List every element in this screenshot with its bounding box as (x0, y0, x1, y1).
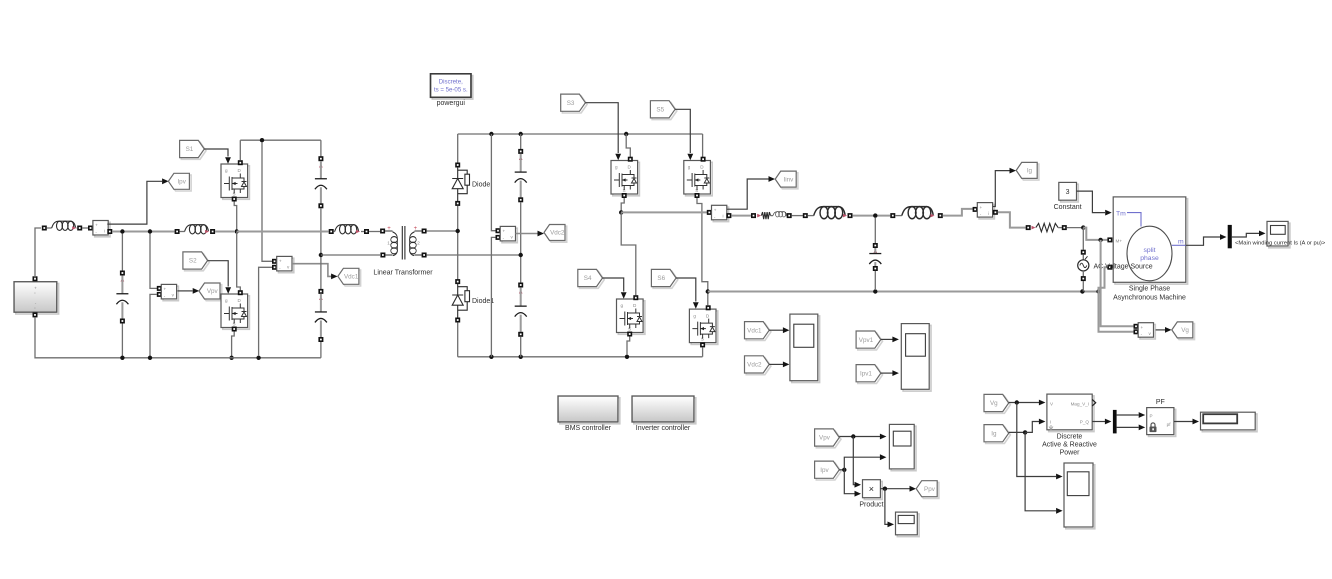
svg-text:Ig: Ig (991, 430, 997, 437)
wire Vpv1 to scope2 (881, 338, 893, 340)
svg-text:+: + (502, 229, 505, 234)
node topbus-Vdc1 (260, 138, 264, 142)
wire S5 to gate Q5 (675, 109, 690, 153)
diode D2 (455, 279, 460, 284)
svg-text:Vdc1: Vdc1 (747, 327, 762, 334)
from tag S6 (653, 271, 678, 288)
MOSFET Q4 (618, 301, 645, 335)
inductor L1 (42, 226, 47, 231)
node machine phase (1098, 238, 1102, 242)
svg-text:Power: Power (1060, 450, 1081, 457)
capacitor C3 leg bottom (320, 208, 322, 289)
wire Ipv to scope5 and product (839, 469, 844, 471)
wire product to display2 (885, 489, 888, 525)
MOSFET Q3 (613, 162, 640, 196)
display PF (1202, 414, 1257, 432)
capacitor C4 rect top (520, 134, 522, 149)
wire Q2 source to bottom bus (232, 332, 235, 357)
node rail-C1 (120, 229, 124, 233)
from tag Vg power (986, 396, 1011, 413)
from tag S5 (652, 102, 677, 119)
voltage measurement Vdc2 (491, 134, 495, 231)
node capmid to transformer (319, 253, 323, 257)
wire S4 to gate Q4 (603, 278, 624, 292)
node botbus Vdc2 (489, 355, 493, 359)
svg-text:S1: S1 (186, 146, 194, 153)
node phase A (619, 210, 623, 214)
svg-text:g: g (225, 168, 228, 173)
wire Q1 source to rail and Q2 drain (234, 202, 237, 232)
node phase B (706, 289, 710, 293)
MOSFET Q1 (223, 166, 250, 200)
svg-text:g: g (615, 165, 618, 170)
svg-text:1: 1 (387, 241, 390, 246)
resistor R1 (1026, 225, 1031, 230)
wire mid rail (107, 229, 112, 234)
node filter cap (873, 213, 877, 217)
from tag Ipv product (816, 463, 841, 480)
wire Vdc2 to scope1 (769, 363, 783, 365)
wire Vdc2 to goto tag (516, 233, 538, 235)
svg-text:Asynchronous Machine: Asynchronous Machine (1113, 295, 1186, 302)
node bottombus-C1 (120, 356, 124, 360)
wire L4 to node (852, 215, 890, 217)
wire Ipv1 to scope2 (881, 372, 893, 374)
svg-text:g: g (621, 303, 624, 308)
svg-text:+: + (95, 223, 98, 228)
svg-text:Ipv: Ipv (820, 467, 829, 474)
inductor L2 mid (175, 229, 180, 234)
svg-text:split: split (1143, 247, 1155, 254)
inductor L5 (890, 213, 895, 218)
from tag S1 (181, 142, 206, 159)
top bus converter1 (240, 139, 321, 141)
goto tag Iinv (777, 173, 798, 189)
wire to goto tag Ipv (107, 181, 162, 224)
MOSFET Q2 (223, 296, 250, 330)
svg-text:Vpv: Vpv (207, 288, 219, 295)
wire Vpv to scope5 and product (839, 436, 880, 438)
current measurement Iinv (713, 207, 728, 222)
node botbus capleg (519, 355, 523, 359)
MOSFET Q6 (691, 311, 718, 345)
phase B rail (708, 291, 1099, 293)
node bottombus-Vpv (148, 356, 152, 360)
capacitor C1 (121, 234, 123, 272)
wire Vdc1 to goto tag (292, 264, 332, 277)
wire bus selector to scope (1232, 233, 1259, 237)
svg-text:Ig: Ig (1027, 168, 1033, 175)
node botbus Q4 (625, 355, 629, 359)
node bottombus-Vdc1minus (256, 356, 260, 360)
goto tag Vdc2 (546, 226, 567, 242)
display Ppv (897, 514, 919, 537)
svg-text:+: + (980, 205, 983, 210)
node phaseB acsource (1080, 289, 1084, 293)
wire Vg to goto tag (1156, 329, 1165, 331)
wire D2 to bottom bus (457, 322, 459, 356)
from tag S4 (580, 271, 605, 288)
svg-text:Vpv1: Vpv1 (859, 337, 874, 344)
bus selector PQ (1113, 410, 1117, 434)
wire Ig signal to goto tag (993, 171, 1010, 207)
svg-text:Constant: Constant (1054, 204, 1082, 211)
wire Vdc1 to scope1 (769, 329, 783, 331)
wire rail to inductor L3 (237, 231, 329, 233)
wire product to Ppv goto (880, 488, 909, 490)
svg-text:Vdc2: Vdc2 (747, 362, 762, 369)
wire PF to display (1174, 421, 1193, 423)
svg-text:S3: S3 (567, 100, 575, 107)
svg-text:PF: PF (1156, 399, 1165, 406)
svg-text:Vdc2: Vdc2 (550, 230, 565, 237)
goto tag Ppv (918, 482, 939, 498)
wire R1 to AC node (1067, 227, 1084, 229)
node capleg mid (519, 253, 523, 257)
voltage measurement Vg risers (1101, 240, 1134, 326)
svg-text:Ipv1: Ipv1 (860, 370, 872, 377)
svg-text:AC Voltage Source: AC Voltage Source (1094, 264, 1153, 271)
node topbus Q3 (624, 132, 628, 136)
wire S1 to gate Q1 (204, 149, 228, 157)
goto tag Vdc1 (340, 270, 361, 286)
wire Q1 drain to top bus (239, 140, 241, 160)
svg-text:Product: Product (859, 502, 883, 509)
wire Vpv to goto tag (177, 290, 192, 292)
svg-text:S4: S4 (584, 275, 592, 282)
svg-text:m: m (1178, 238, 1184, 245)
wire L3 to transformer (369, 231, 380, 233)
node diode midpoint (456, 229, 460, 233)
svg-text:M+: M+ (1116, 238, 1123, 243)
MOSFET Q5 (686, 162, 713, 196)
from tag Vdc1 scope (746, 323, 771, 340)
wire constant to Tm (1077, 191, 1106, 213)
svg-text:Mag_V_I: Mag_V_I (1071, 402, 1089, 407)
svg-text:+: + (1140, 325, 1143, 330)
svg-text:Ppv: Ppv (924, 486, 936, 493)
svg-text:phase: phase (1140, 255, 1159, 262)
from tag Vdc2 scope (746, 358, 771, 375)
svg-text:+: + (164, 287, 167, 292)
svg-text:2: 2 (417, 241, 420, 246)
scope Vdc (792, 316, 820, 383)
svg-text:S5: S5 (656, 107, 664, 114)
subsystem PF (1149, 409, 1176, 436)
from tag S3 (562, 96, 587, 113)
svg-text:powergui: powergui (437, 100, 466, 107)
svg-text:3: 3 (1066, 189, 1070, 196)
svg-text:+: + (279, 259, 282, 264)
svg-text:Diode: Diode (472, 182, 490, 189)
diode D1 (457, 134, 459, 163)
scope Vpv Ipv small (891, 426, 916, 471)
from tag Ig power (986, 426, 1011, 443)
wire Iinv signal to goto tag (727, 179, 769, 209)
node phaseB machine (1096, 289, 1100, 293)
goto tag Vg (1174, 324, 1195, 340)
wire machine m to bus selector (1186, 237, 1220, 245)
svg-text:Vdc1: Vdc1 (344, 274, 359, 281)
wire Iinv out to RL branch (726, 213, 731, 218)
wire Ig out to resistor R1 (993, 210, 998, 215)
inductor L3 (329, 229, 334, 234)
machine Single Phase Asynchronous Machine (1115, 199, 1188, 284)
node phaseB cap (873, 289, 877, 293)
svg-text:Iinv: Iinv (784, 176, 795, 183)
wire Q4 source to bottom bus (627, 337, 630, 356)
wire L5 to current measurement Ig (943, 209, 973, 216)
wire AC node to machine M+ (1083, 228, 1107, 240)
node topbus Vdc2 (489, 132, 493, 136)
product block (864, 482, 882, 500)
current measurement Ipv (95, 222, 110, 237)
wire Vg to power block and scope4 (1009, 402, 1039, 404)
bus selector machine (1228, 225, 1232, 248)
capacitor C2 leg top (320, 140, 322, 156)
wire Ig to power block and scope4 (1009, 431, 1025, 433)
capacitor C5 rect bottom (520, 202, 522, 282)
inductor L4 (803, 213, 808, 218)
svg-text:Discrete,: Discrete, (439, 79, 463, 86)
svg-text:Ipv: Ipv (177, 179, 186, 186)
wire D1 to midpoint (457, 206, 459, 280)
svg-text:Single Phase: Single Phase (1129, 286, 1170, 293)
wire L1 to current measurement (82, 227, 88, 229)
wire S3 to gate Q3 (585, 103, 618, 153)
wire topbus to Q3 drain (626, 134, 630, 158)
from tag Ipv1 (858, 366, 883, 383)
svg-text:P: P (1150, 414, 1153, 419)
svg-text:S6: S6 (657, 275, 665, 282)
svg-text:×: × (869, 484, 874, 494)
svg-text:Vg: Vg (1181, 327, 1189, 334)
phase A rail to current measurement (621, 211, 707, 213)
svg-text:Vg: Vg (990, 400, 998, 407)
svg-text:P_Q: P_Q (1080, 419, 1090, 424)
svg-text:Discrete: Discrete (1057, 434, 1083, 441)
from tag Vpv1 (858, 333, 883, 350)
node AC source top (1081, 225, 1085, 229)
svg-text:ts = 5e-05 s.: ts = 5e-05 s. (434, 87, 468, 94)
voltage measurement Vpv (150, 234, 157, 289)
svg-text:i: i (988, 211, 989, 216)
svg-text:i: i (104, 229, 105, 234)
wire Q3 source to phase A (621, 198, 624, 212)
from tag Vpv product (816, 431, 841, 448)
block Discrete Active Reactive Power (1049, 396, 1094, 432)
wire C1 to bottom bus (121, 324, 123, 357)
wire PQ to bus selector2 (1092, 421, 1105, 423)
svg-text:g: g (225, 298, 228, 303)
wire Q6 source to bottom bus (702, 347, 704, 357)
svg-text:+: + (714, 208, 717, 213)
machine M- wire (1107, 265, 1112, 270)
current measurement Ig (979, 204, 994, 219)
wire Q5 source to phase B riser (697, 198, 708, 305)
subsystem Inverter controller (634, 398, 696, 424)
wires bus selector2 to PF (1117, 414, 1139, 416)
svg-text:S2: S2 (189, 258, 197, 265)
svg-text:g: g (693, 313, 696, 318)
subsystem PV source (16, 284, 59, 315)
wire phase A down to Q4 drain (621, 212, 636, 295)
node rail-leg1 (235, 229, 239, 233)
wire topbus corner to Q5 drain (702, 134, 704, 158)
capacitor C6 (874, 218, 876, 244)
svg-text:Linear Transformer: Linear Transformer (373, 270, 433, 277)
powergui block (432, 76, 473, 100)
wire S6 to gate Q6 (676, 278, 696, 302)
constant block (1061, 184, 1079, 202)
wire source plus to inductor L1 (35, 228, 41, 278)
goto tag Ig (1018, 164, 1039, 180)
node rail-Vpv (148, 229, 152, 233)
voltage measurement Vg (1140, 325, 1155, 340)
top bus rectifier-inverter (458, 133, 703, 135)
svg-text:Tm: Tm (1116, 210, 1126, 217)
wire transformer secondary top to diode leg (427, 230, 458, 232)
svg-text:<Main winding current Is (A or: <Main winding current Is (A or pu)> (1235, 241, 1326, 247)
svg-text:g: g (688, 165, 691, 170)
bottom bus converter1 (35, 317, 321, 358)
node bottombus-leg1 (229, 356, 233, 360)
AC voltage source (1082, 228, 1084, 250)
scope Vpv Ipv (903, 325, 931, 391)
goto tag Ipv (170, 175, 191, 191)
goto tag Vpv (201, 285, 222, 301)
node topbus capleg (519, 132, 523, 136)
svg-text:Inverter controller: Inverter controller (636, 425, 691, 432)
series RL branch (751, 213, 756, 218)
svg-text:i: i (722, 214, 723, 219)
svg-text:BMS controller: BMS controller (565, 425, 612, 432)
from tag S2 (185, 254, 210, 271)
wire S2 to gate Q2 (208, 261, 229, 287)
svg-text:Active & Reactive: Active & Reactive (1042, 442, 1097, 449)
subsystem BMS controller (560, 398, 620, 424)
scope Main winding current (1269, 223, 1290, 248)
svg-text:Vpv: Vpv (819, 435, 831, 442)
scope Vg Ig (1066, 465, 1095, 529)
bottom bus rectifier-inverter (458, 356, 703, 358)
voltage measurement Vdc1 (262, 142, 272, 261)
wire RL to inductor L4 (792, 215, 803, 217)
transformer T1 (380, 229, 385, 234)
wire transformer secondary bottom to cap leg (427, 254, 521, 256)
svg-text:I: I (1050, 419, 1051, 424)
